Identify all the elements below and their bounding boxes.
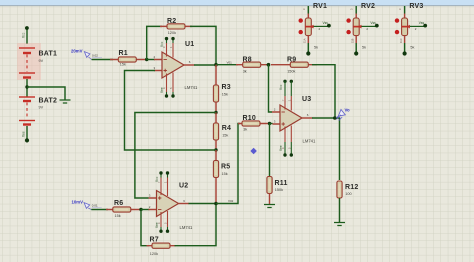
wire: U1 output to V01 node [194,64,216,66]
wire: 10mV to R6 [91,209,108,211]
svg-text:5k: 5k [410,45,414,49]
power terminal Vee (battery bottom) [21,131,29,142]
potentiometer RV2 5k [346,3,378,55]
node: R10/R11/U3 pin3 junction [268,122,271,125]
resistor R3 15k [213,65,230,113]
node: R6/R7/U2 pin2 junction [139,208,142,211]
op-amp U2 LM741 [149,171,193,233]
svg-text:11C: 11C [399,38,403,43]
wire: R7 to V02 riser [175,204,217,246]
resistor R9 150k [271,56,317,73]
svg-text:Vcc: Vcc [160,41,164,47]
svg-text:10mV: 10mV [72,200,84,205]
wire: feedback riser to R2 [147,26,162,59]
potentiometer RV1 5k [299,3,331,55]
power terminal Vcc (battery top) [21,26,29,38]
svg-text:R4: R4 [222,125,231,132]
window top bar [0,0,474,6]
svg-text:R6: R6 [114,200,123,207]
resistor R1 15k [110,50,147,67]
potentiometer RV3 5k [395,3,427,55]
svg-text:U1: U1 [185,41,194,48]
svg-text:R10: R10 [243,115,256,122]
battery BAT1 selection highlight [17,43,41,80]
wire: junction down to R7 [141,210,149,246]
svg-text:R2: R2 [167,18,176,25]
svg-text:Vcc: Vcc [21,32,25,38]
wire: junction down to U3 pin2 [269,65,273,112]
svg-text:R9: R9 [287,56,296,63]
ground (R12) [334,223,345,226]
svg-text:Vcc: Vcc [279,84,283,90]
svg-text:R12: R12 [345,184,358,191]
svg-text:U2: U2 [179,183,188,190]
svg-text:R5: R5 [221,164,230,171]
svg-text:R3: R3 [222,84,231,91]
svg-text:Vss: Vss [323,21,329,25]
node: V01 (U1 out / R2 / R3) [214,60,232,66]
resistor R5 15k [213,150,230,204]
svg-text:Vss: Vss [370,21,376,25]
resistor R11 150k [267,177,288,205]
wire: R9 feedback to U3 output [312,65,335,118]
svg-text:150k: 150k [287,69,295,73]
resistor R7 120k [147,237,176,257]
svg-text:Vee: Vee [279,145,283,151]
input terminal 20mV [71,49,102,60]
resistor R12 100 [337,181,359,222]
svg-text:Vee: Vee [21,131,25,137]
resistor R2 120k [160,18,192,35]
svg-text:RV3: RV3 [409,3,423,10]
svg-text:3k: 3k [243,69,247,73]
resistor R4 15k [213,113,231,151]
svg-text:Vss: Vss [419,21,425,25]
wire: R3/R4 junction to U2 pin3 riser [135,113,216,199]
svg-text:15k: 15k [222,134,228,138]
svg-text:R11: R11 [275,180,288,187]
ground (battery) [60,100,71,103]
svg-text:3k: 3k [243,128,247,132]
svg-text:9V: 9V [39,59,44,63]
selection marker diamond [250,148,257,155]
svg-text:100: 100 [345,192,351,196]
svg-text:9V: 9V [39,106,44,110]
svg-text:5k: 5k [362,45,366,49]
svg-text:0.02: 0.02 [92,54,98,58]
svg-text:Vee: Vee [155,222,159,228]
wire: U3 output to Vo node [312,118,340,180]
svg-text:0.01: 0.01 [92,204,98,208]
ground (R11) [264,205,275,208]
node: R8/R9/U3 pin2 junction [267,63,271,67]
svg-text:LM741: LM741 [180,225,193,230]
battery BAT2 [19,97,35,125]
node: V02 (U2 out / R5 / R7) [214,199,233,205]
wire: BAT1 to BAT2 junction [26,79,28,97]
wire: V02 to R10 riser [216,124,240,204]
svg-text:V02: V02 [228,199,234,203]
op-amp U3 LM741 [272,80,316,157]
wire: junction to ground [27,87,65,100]
svg-text:20mV: 20mV [71,49,83,54]
label BAT1 9V [39,51,58,63]
wire: BAT2 bottom stub [26,126,28,139]
svg-text:BAT2: BAT2 [39,98,58,105]
svg-text:Vcc: Vcc [155,176,159,182]
svg-text:LM741: LM741 [185,85,198,90]
svg-text:RV2: RV2 [361,3,375,10]
wire: R4/R5 junction to U1 pin3 [125,71,217,151]
svg-text:R1: R1 [119,50,128,57]
wire: junction down to R11 [269,124,271,177]
wire: battery top stub [26,29,28,44]
svg-text:RV1: RV1 [313,3,327,10]
battery BAT1 [19,48,35,78]
svg-text:15k: 15k [120,63,126,67]
svg-text:11B: 11B [350,38,354,43]
svg-text:15k: 15k [222,172,228,176]
wire: R2 to U1 output column [190,26,216,64]
node: R3/R4 junction [214,111,217,114]
svg-text:120k: 120k [168,31,176,35]
svg-text:Vo: Vo [345,108,351,113]
label BAT2 9V [39,98,58,110]
node: battery midpoint junction [25,85,28,88]
wire: junction to U3 pin3 [270,123,273,125]
resistor R6 15k [106,200,141,218]
node: R4/R5 junction [214,148,217,151]
svg-text:120k: 120k [150,252,158,256]
svg-text:R8: R8 [243,56,252,63]
svg-text:Vee: Vee [160,87,164,93]
wire: 20mV to R1 [92,59,113,61]
op-amp U1 LM741 [154,37,198,98]
svg-text:V01: V01 [227,60,233,64]
input terminal 10mV [72,200,102,210]
output terminal Vo [336,108,350,121]
wire: U2 output to V02 node [189,203,217,205]
wire: V01 to R8 [216,64,238,66]
wire: junction to U1 pin2 [147,59,155,61]
svg-text:LM741: LM741 [303,139,316,144]
svg-text:U3: U3 [302,96,311,103]
svg-text:150k: 150k [275,188,283,192]
svg-text:15k: 15k [222,93,228,97]
resistor R8 3k [236,56,269,73]
svg-text:R7: R7 [150,237,159,244]
svg-text:5k: 5k [314,45,318,49]
node: Vo junction [333,116,337,120]
wire: junction to U2 pin2 [141,209,150,211]
svg-text:BAT1: BAT1 [39,51,58,58]
node: R1/R2/U1 pin2 junction [145,58,148,61]
svg-text:11A: 11A [303,38,307,43]
svg-text:15k: 15k [115,214,121,218]
resistor R10 3k [238,115,270,132]
